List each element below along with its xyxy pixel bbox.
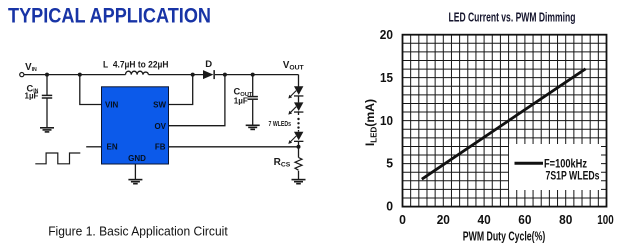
svg-text:1µF: 1µF <box>25 91 39 100</box>
svg-text:GND: GND <box>128 154 146 163</box>
svg-text:80: 80 <box>559 213 572 227</box>
svg-text:7S1P WLEDs: 7S1P WLEDs <box>546 170 600 182</box>
svg-text:40: 40 <box>478 213 491 227</box>
svg-text:1µF: 1µF <box>234 96 248 105</box>
svg-text:100: 100 <box>597 213 613 227</box>
svg-text:EN: EN <box>107 143 118 152</box>
svg-text:F=100kHz: F=100kHz <box>544 158 587 170</box>
svg-text:Figure 1. Basic Application Ci: Figure 1. Basic Application Circuit <box>48 225 228 239</box>
svg-text:7 WLEDs: 7 WLEDs <box>269 119 292 128</box>
svg-text:60: 60 <box>518 213 531 227</box>
svg-text:PWM Duty Cycle(%): PWM Duty Cycle(%) <box>463 229 546 244</box>
svg-text:L 4.7µH to 22µH: L 4.7µH to 22µH <box>103 59 169 70</box>
svg-text:LED Current vs. PWM Dimming: LED Current vs. PWM Dimming <box>449 10 576 25</box>
svg-text:20: 20 <box>437 213 450 227</box>
svg-text:20: 20 <box>380 28 393 42</box>
svg-text:OV: OV <box>154 122 166 131</box>
svg-text:D: D <box>205 59 212 70</box>
svg-text:VIN: VIN <box>105 100 119 109</box>
svg-text:10: 10 <box>380 114 393 128</box>
svg-text:FB: FB <box>155 143 166 152</box>
svg-text:5: 5 <box>386 157 393 171</box>
svg-text:15: 15 <box>380 71 393 85</box>
svg-text:TYPICAL APPLICATION: TYPICAL APPLICATION <box>8 3 211 27</box>
svg-text:0: 0 <box>399 213 406 227</box>
svg-text:SW: SW <box>153 101 166 110</box>
svg-text:0: 0 <box>386 200 393 214</box>
